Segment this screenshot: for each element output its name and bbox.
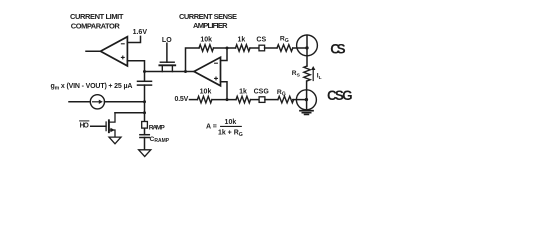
svg-text:COMPARATOR: COMPARATOR bbox=[71, 21, 121, 30]
wire RS to CSG pin bbox=[306, 81, 308, 110]
node bbox=[143, 100, 146, 103]
wire feedback from output node up to top rail bbox=[186, 48, 200, 72]
pin circle CSG bbox=[296, 90, 316, 110]
op-amp U2 current sense amplifier bbox=[194, 57, 221, 86]
svg-text:RS: RS bbox=[292, 70, 301, 78]
wire into current source bbox=[69, 101, 90, 103]
resistor 1k (top) bbox=[236, 45, 250, 52]
wire comparator non-inverting input down to RAMP node bbox=[127, 61, 144, 72]
svg-text:AMPLIFIER: AMPLIFIER bbox=[193, 21, 228, 30]
svg-text:gm x (VIN - VOUT) + 25 µA: gm x (VIN - VOUT) + 25 µA bbox=[51, 83, 133, 92]
resistor RG (top) bbox=[277, 45, 293, 52]
svg-text:CSG: CSG bbox=[254, 89, 270, 96]
pin CSG box bbox=[259, 97, 265, 103]
node top rail junction bbox=[226, 47, 229, 50]
node RAMP junction bbox=[143, 70, 146, 73]
svg-text:IL: IL bbox=[317, 73, 322, 81]
wire RAMP box to CRAMP to ground bbox=[144, 128, 146, 149]
node amplifier output junction bbox=[184, 70, 187, 73]
node HO rail junction bbox=[143, 111, 146, 114]
wire bbox=[265, 47, 277, 49]
svg-text:CS: CS bbox=[256, 36, 266, 43]
svg-text:CSG: CSG bbox=[327, 88, 353, 103]
current source gm bbox=[90, 95, 104, 109]
wire current source to RAMP node bbox=[105, 101, 145, 103]
wire into CSG pin circle bbox=[293, 99, 307, 101]
resistor 1k (bottom) bbox=[236, 96, 250, 103]
ground below CSG pin bbox=[300, 110, 313, 112]
transistor LO pass FET bbox=[166, 43, 168, 62]
resistor RS sense bbox=[304, 66, 310, 81]
svg-text:CS: CS bbox=[330, 41, 345, 56]
wire RAMP node to amplifier output node bbox=[145, 71, 195, 73]
svg-text:1k: 1k bbox=[239, 89, 247, 96]
op-amp U1 current limit comparator bbox=[101, 37, 128, 66]
svg-text:1k + RG: 1k + RG bbox=[218, 129, 243, 137]
svg-text:10k: 10k bbox=[200, 36, 212, 43]
current arrow IL bbox=[312, 69, 314, 80]
svg-text:1.6V: 1.6V bbox=[133, 29, 148, 36]
svg-text:RAMP: RAMP bbox=[149, 124, 165, 131]
ground below CRAMP bbox=[139, 150, 151, 157]
wire into CS pin circle bbox=[293, 47, 307, 49]
wire HO drain rail bbox=[115, 112, 145, 114]
wire bottom rail bbox=[212, 99, 236, 101]
svg-text:0.5V: 0.5V bbox=[175, 96, 189, 103]
transistor HO discharge FET bbox=[91, 125, 106, 127]
resistor 10k feedback (top) bbox=[199, 45, 213, 52]
pin CS box bbox=[259, 45, 265, 51]
node CS pin junction bbox=[305, 46, 308, 49]
svg-text:10k: 10k bbox=[200, 89, 212, 96]
wire top rail bbox=[214, 47, 236, 49]
svg-text:CURRENT SENSE: CURRENT SENSE bbox=[179, 12, 237, 21]
svg-text:CRAMP: CRAMP bbox=[150, 136, 170, 144]
node bottom rail junction bbox=[226, 98, 229, 101]
wire amplifier non-inverting input stub bbox=[221, 82, 228, 100]
svg-text:RG: RG bbox=[277, 89, 286, 97]
ground below HO FET bbox=[109, 137, 121, 144]
svg-text:CURRENT LIMIT: CURRENT LIMIT bbox=[70, 12, 124, 21]
wire RAMP vertical line bbox=[144, 72, 146, 122]
wire bbox=[251, 99, 260, 101]
resistor RG (bottom) bbox=[278, 96, 294, 103]
wire comparator output bbox=[86, 50, 101, 52]
svg-text:HO: HO bbox=[80, 123, 90, 130]
resistor 10k (bottom) bbox=[197, 96, 211, 103]
wire amplifier inverting input stub bbox=[221, 48, 228, 61]
wire bbox=[265, 99, 278, 101]
svg-text:10k: 10k bbox=[225, 119, 237, 126]
svg-text:RG: RG bbox=[280, 36, 289, 44]
pin RAMP box bbox=[142, 122, 148, 129]
pin circle CS bbox=[297, 35, 318, 56]
wire comparator inverting input to 1.6V bbox=[127, 36, 140, 42]
wire 0.5V to 10k bbox=[190, 99, 198, 101]
wire vertical through CS pin bbox=[306, 35, 308, 66]
svg-text:LO: LO bbox=[162, 37, 172, 44]
node CSG pin junction bbox=[305, 98, 308, 101]
capacitor CRAMP bbox=[140, 134, 149, 136]
wire bbox=[250, 47, 259, 49]
svg-text:A =: A = bbox=[206, 123, 217, 130]
svg-text:1k: 1k bbox=[238, 36, 246, 43]
capacitor on RAMP node bbox=[138, 80, 152, 82]
